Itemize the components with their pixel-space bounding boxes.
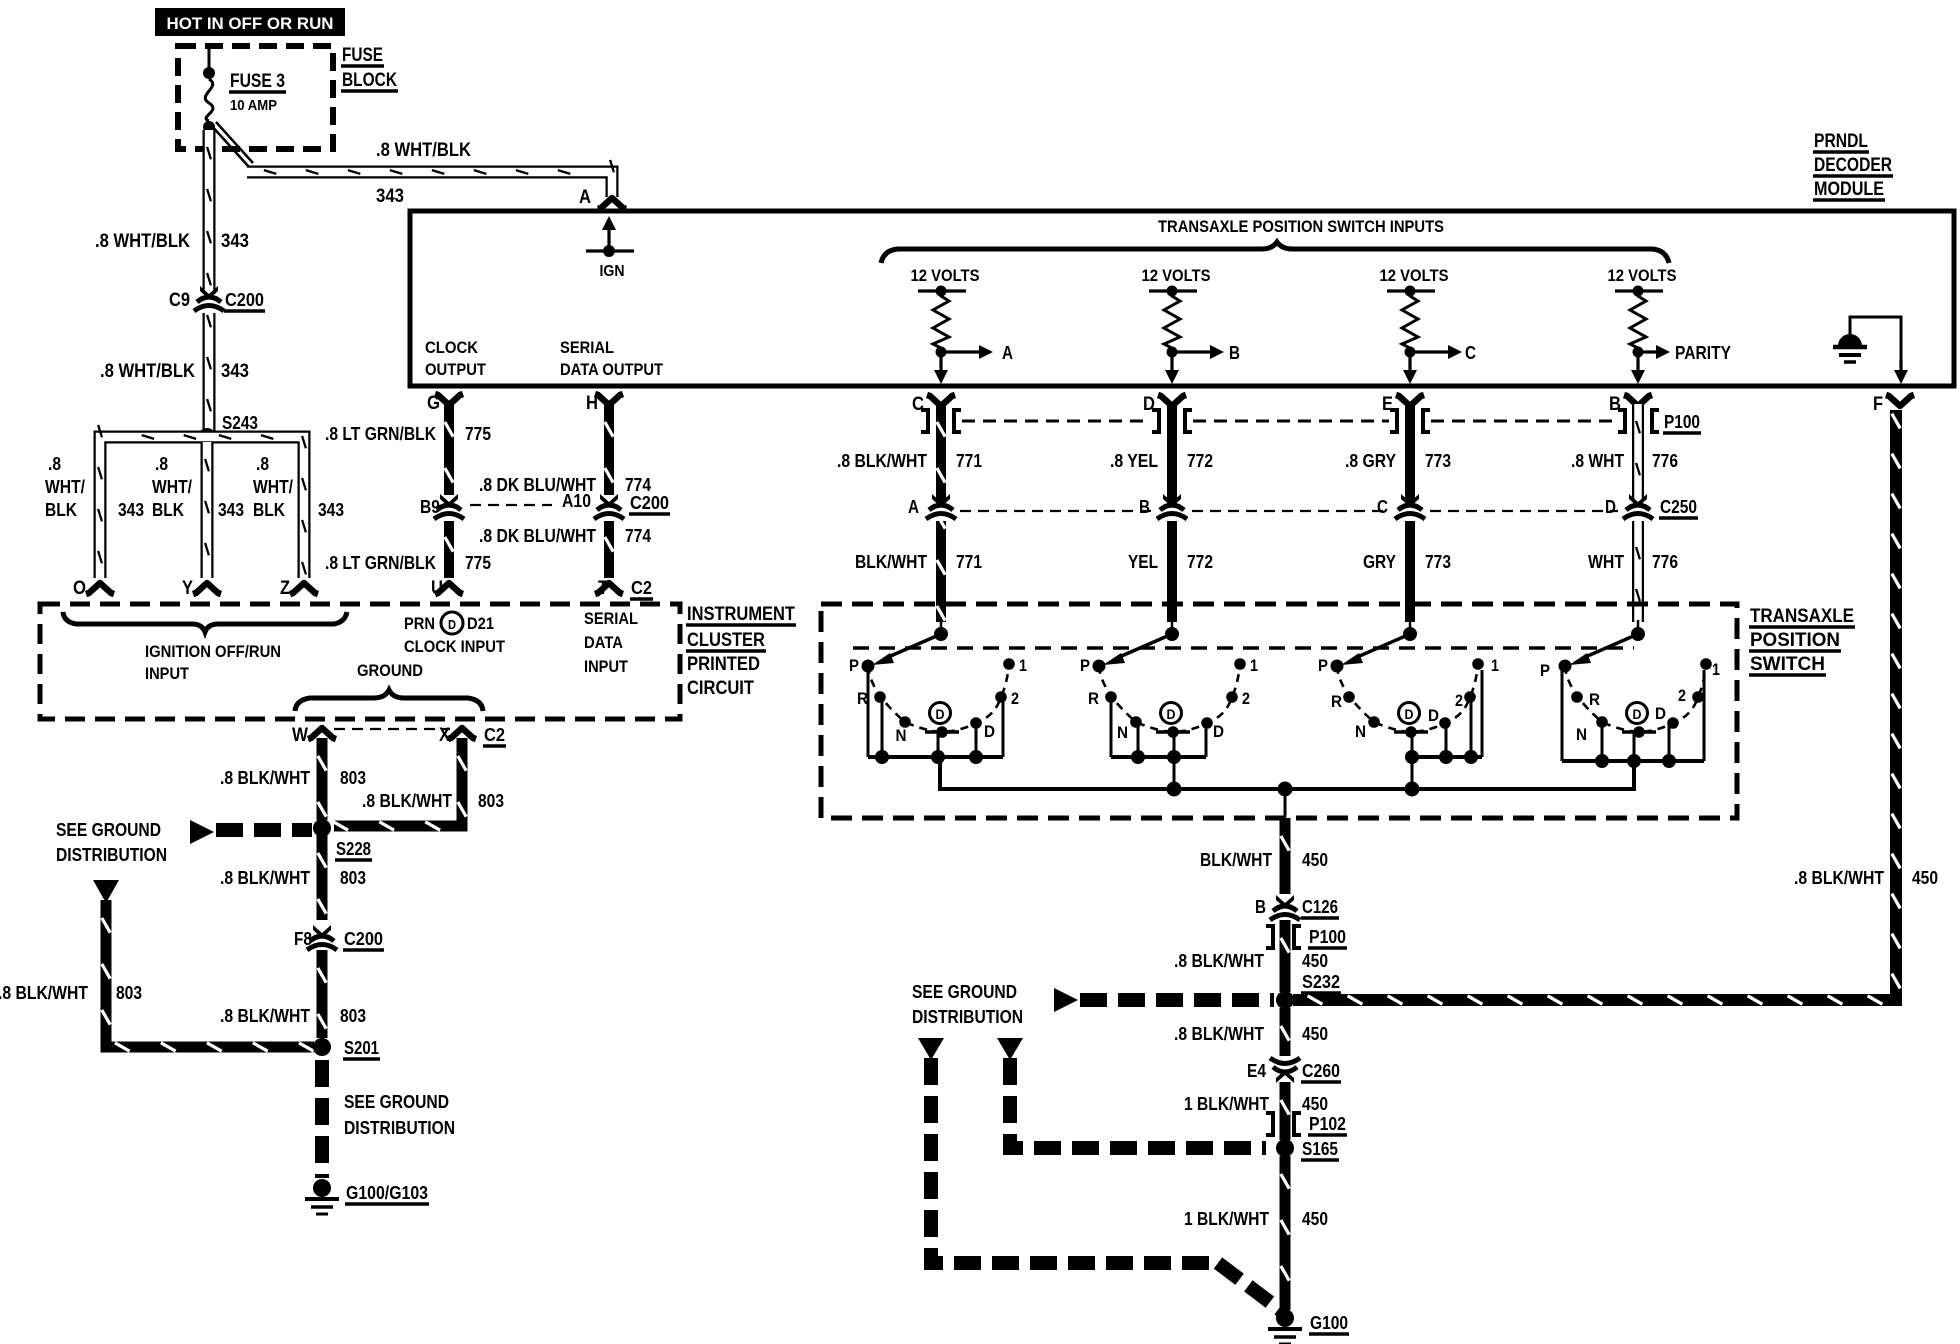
svg-text:10 AMP: 10 AMP [230,97,277,114]
fuse block label [341,45,398,91]
svg-text:MODULE: MODULE [1814,179,1884,200]
svg-text:.8 LT GRN/BLK: .8 LT GRN/BLK [325,553,436,573]
wire 1 BLK/WHT 450 C260 to S165 with P102 [1266,1082,1347,1140]
wire .8 GRY 773 terminal E to switch [1405,404,1415,622]
label .8 WHT/BLK 343 lower left vertical [100,361,249,382]
label .8 BLK/WHT 803 above S201 [220,1006,366,1026]
svg-text:P: P [1318,656,1328,675]
labels wire colors row above C250 [837,451,1678,471]
label .8 DK BLU/WHT 774 lower [479,526,651,546]
wire 1 BLK/WHT 450 S165 to G100 [1281,1156,1289,1310]
label 1 BLK/WHT 450 above G100 [1184,1209,1328,1229]
svg-text:776: 776 [1652,451,1678,471]
ground distribution arrow into S232 [1054,988,1274,1012]
wire 343 S243 branch to terminal O [98,425,213,578]
svg-text:R: R [1088,689,1099,708]
svg-text:DISTRIBUTION: DISTRIBUTION [344,1118,455,1138]
svg-text:TRANSAXLE POSITION SWITCH INPU: TRANSAXLE POSITION SWITCH INPUTS [1158,217,1444,236]
PRNDL decoder module label [1813,131,1893,200]
svg-text:B: B [1229,343,1240,363]
svg-text:C9: C9 [169,290,190,311]
wire .8 BLK/WHT 771 terminal C to switch [937,404,945,622]
svg-text:BLK: BLK [45,500,77,520]
svg-text:N: N [896,726,907,745]
svg-text:CLUSTER: CLUSTER [687,630,765,651]
svg-text:.8 WHT/BLK: .8 WHT/BLK [95,231,190,252]
module internal ground for parity return [1833,317,1908,384]
svg-text:450: 450 [1302,1024,1328,1044]
wire .8 YEL 772 terminal D to switch [1167,404,1177,622]
gear position switch wafer 1 [849,620,1027,789]
terminal A into module [579,187,626,209]
svg-text:A: A [908,497,919,517]
svg-text:DISTRIBUTION: DISTRIBUTION [56,845,167,865]
switch wiper linkage dashed line [853,646,1634,650]
svg-text:772: 772 [1187,451,1213,471]
svg-text:SEE GROUND: SEE GROUND [56,820,161,840]
wire .8 BLK/WHT 803 left branch to S201 [102,900,314,1051]
svg-text:D: D [1633,706,1642,722]
svg-text:2: 2 [1011,689,1019,708]
brace ignition off/run input [63,612,347,632]
svg-text:343: 343 [221,361,249,382]
svg-text:DATA OUTPUT: DATA OUTPUT [560,360,664,379]
svg-text:343: 343 [218,500,244,520]
svg-text:.8 BLK/WHT: .8 BLK/WHT [1174,1024,1264,1044]
svg-text:1: 1 [1019,656,1027,675]
wire .8 BLK/WHT 450 S232 to C260 [1281,1008,1289,1056]
ground distribution triangle left branch [93,880,119,903]
svg-text:1 BLK/WHT: 1 BLK/WHT [1184,1209,1269,1229]
label .8 BLK/WHT 450 below S232 [1174,1024,1328,1044]
terminal T serial data input with C2 [595,578,653,599]
svg-text:1 BLK/WHT: 1 BLK/WHT [1184,1094,1269,1114]
svg-text:P100: P100 [1664,412,1700,432]
label .8 DK BLU/WHT 774 upper [479,475,651,495]
svg-text:D: D [1605,497,1616,517]
svg-text:A: A [1002,343,1013,363]
svg-text:WHT/: WHT/ [253,477,293,497]
svg-text:.8 BLK/WHT: .8 BLK/WHT [362,791,452,811]
PRNDL decoder module box [410,211,1954,386]
label GROUND with brace [295,661,483,711]
svg-text:.8 BLK/WHT: .8 BLK/WHT [0,983,88,1003]
svg-text:S243: S243 [222,413,258,433]
svg-text:P102: P102 [1309,1114,1346,1134]
svg-text:S228: S228 [336,839,371,859]
label 1 BLK/WHT 450 above P102 [1184,1094,1328,1114]
wire .8 BLK/WHT 803 from X to S228 [333,738,466,830]
terminal G clock output [425,338,487,414]
svg-text:773: 773 [1425,451,1451,471]
splice S165 [1276,1139,1339,1160]
svg-text:D: D [984,722,995,741]
connector A10 C200 inline [470,491,670,521]
svg-text:C: C [1377,497,1388,517]
svg-text:WHT: WHT [1588,552,1624,572]
label .8 WHT/BLK 343 top run [376,140,471,207]
connector C126 terminal B [1255,895,1339,922]
svg-text:12 VOLTS: 12 VOLTS [1380,266,1449,285]
svg-text:803: 803 [340,768,366,788]
12 volt pull-up and output PARITY inside module [1608,266,1732,384]
svg-text:C2: C2 [484,725,505,745]
splice S243 [198,413,259,446]
connector C250 row [908,494,1698,521]
gear position switch wafer 2 [1080,620,1258,789]
svg-text:450: 450 [1302,1094,1328,1114]
splice S232 [1276,972,1341,1009]
ground distribution arrow into S228 [190,820,312,844]
label SEE GROUND DISTRIBUTION lower left [344,1092,455,1138]
svg-text:R: R [1589,690,1600,709]
wire .8 LT GRN/BLK 775 clock output [445,404,453,578]
svg-text:803: 803 [478,791,504,811]
svg-text:.8 BLK/WHT: .8 BLK/WHT [220,768,310,788]
svg-text:P: P [1080,656,1090,675]
terminals O Y Z into cluster [73,578,318,599]
svg-text:GRY: GRY [1363,552,1396,572]
svg-text:TRANSAXLE: TRANSAXLE [1750,606,1854,627]
svg-text:.8 BLK/WHT: .8 BLK/WHT [837,451,927,471]
svg-text:D21: D21 [467,614,494,633]
wire .8 BLK/WHT 803 S228 to C200 [318,835,326,920]
fuse block dashed box [178,46,333,149]
svg-text:771: 771 [956,451,982,471]
connector P100 row under module [921,410,1701,433]
label SERIAL DATA INPUT [584,609,638,676]
svg-text:450: 450 [1302,951,1328,971]
splice S201 [313,1038,380,1059]
12 volt pull-up and output B inside module [1142,266,1241,384]
svg-text:.8 BLK/WHT: .8 BLK/WHT [220,1006,310,1026]
labels .8 WHT/BLK 343 three drops [45,454,344,520]
wire .8 DK BLU/WHT 774 serial data [605,404,613,578]
label .8 BLK/WHT 803 W drop [220,768,366,788]
label TRANSAXLE POSITION SWITCH INPUTS [1158,217,1444,236]
svg-text:CLOCK: CLOCK [425,338,479,357]
svg-text:YEL: YEL [1128,552,1158,572]
svg-text:D: D [1213,722,1224,741]
svg-text:PRN: PRN [404,614,435,633]
ground G100 [1268,1309,1349,1344]
svg-text:.8: .8 [256,454,269,474]
svg-text:P100: P100 [1309,927,1346,947]
svg-text:343: 343 [376,186,404,207]
brace over switch input columns [881,242,1669,263]
wire BLK/WHT 450 switch to C126 [1281,818,1289,894]
svg-text:FUSE 3: FUSE 3 [230,71,285,92]
transaxle position switch dashed box [821,604,1737,818]
svg-text:.8 BLK/WHT: .8 BLK/WHT [220,868,310,888]
svg-text:C200: C200 [630,493,669,513]
svg-text:PRNDL: PRNDL [1814,131,1868,152]
svg-text:D: D [1167,706,1176,722]
ground distribution triangles center [918,1038,1023,1060]
label .8 LT GRN/BLK 775 lower [325,553,491,573]
svg-text:343: 343 [118,500,144,520]
svg-text:450: 450 [1302,1209,1328,1229]
svg-text:F: F [1873,394,1883,415]
svg-text:BLK/WHT: BLK/WHT [1200,850,1272,870]
svg-text:12 VOLTS: 12 VOLTS [1608,266,1677,285]
svg-text:P: P [849,656,859,675]
svg-text:R: R [857,689,868,708]
label IGNITION OFF/RUN INPUT [145,642,281,683]
svg-text:771: 771 [956,552,982,572]
gear position switch wafer 4 [1540,620,1720,789]
svg-text:.8 GRY: .8 GRY [1345,451,1396,471]
svg-text:Z: Z [280,578,290,599]
svg-text:WHT/: WHT/ [152,477,192,497]
svg-text:INPUT: INPUT [145,664,190,683]
wire .8 WHT/BLK 343 fuse to PRNDL module terminal A [210,122,614,197]
svg-text:S232: S232 [1302,972,1340,992]
svg-text:O: O [73,578,86,599]
ground path right triangle to S165 [1010,1058,1266,1148]
svg-text:E4: E4 [1247,1061,1266,1081]
svg-text:D: D [448,617,456,632]
svg-text:BLOCK: BLOCK [342,70,397,91]
terminal D under module [1143,394,1186,415]
svg-text:.8 WHT: .8 WHT [1571,451,1624,471]
svg-text:S165: S165 [1302,1139,1338,1159]
svg-text:C2: C2 [631,578,652,598]
svg-text:WHT/: WHT/ [45,477,85,497]
svg-text:DECODER: DECODER [1814,155,1892,176]
wire 343 S243 down to terminal Y [205,442,209,578]
svg-text:.8 LT GRN/BLK: .8 LT GRN/BLK [325,424,436,444]
label .8 BLK/WHT 803 left branch [0,983,142,1003]
connector F8 C200 inline [294,925,384,952]
svg-text:A: A [579,187,591,208]
ground path S201 to G100/G103 [315,1060,329,1178]
label SEE GROUND DISTRIBUTION center [912,982,1023,1027]
svg-text:S201: S201 [344,1038,379,1058]
svg-text:R: R [1331,692,1342,711]
svg-text:774: 774 [625,526,651,546]
svg-text:450: 450 [1302,850,1328,870]
svg-text:774: 774 [625,475,651,495]
svg-text:.8 YEL: .8 YEL [1110,451,1158,471]
svg-text:SWITCH: SWITCH [1750,654,1825,675]
wire .8 BLK/WHT 450 from terminal F [1293,410,1900,1004]
label .8 BLK/WHT 803 X drop [362,791,504,811]
svg-text:N: N [1355,722,1366,741]
svg-text:2: 2 [1678,686,1686,705]
svg-text:BLK: BLK [152,500,184,520]
svg-text:HOT IN OFF OR RUN: HOT IN OFF OR RUN [167,14,334,33]
svg-text:BLK: BLK [253,500,285,520]
svg-text:SEE GROUND: SEE GROUND [344,1092,449,1112]
svg-text:803: 803 [340,1006,366,1026]
svg-text:776: 776 [1652,552,1678,572]
wire 343 S243 branch to terminal Z [202,435,306,578]
svg-text:775: 775 [465,424,491,444]
wire .8 BLK/WHT 803 C200 to S201 [318,950,326,1038]
svg-text:G100/G103: G100/G103 [346,1183,428,1203]
switch output drop to BLK/WHT 450 [1284,789,1287,817]
label .8 LT GRN/BLK 775 upper [325,424,491,444]
transaxle position switch label [1749,606,1855,675]
wire .8 WHT/BLK 343 fuse to C200 and S243 [207,130,211,437]
svg-text:.8 BLK/WHT: .8 BLK/WHT [1174,951,1264,971]
wire and connector P100 lower [1266,920,1347,992]
svg-text:CLOCK INPUT: CLOCK INPUT [404,637,506,656]
svg-text:450: 450 [1912,868,1938,888]
label .8 WHT/BLK 343 upper left vertical [95,231,249,252]
ground path left triangle to G100 [931,1058,1283,1312]
svg-text:INPUT: INPUT [584,657,629,676]
svg-text:POSITION: POSITION [1750,630,1840,651]
svg-text:C126: C126 [1302,897,1338,917]
connector C9 C200 inline [169,286,265,313]
svg-text:P: P [1540,661,1550,680]
instrument cluster printed circuit dashed box [40,604,680,719]
svg-text:343: 343 [318,500,344,520]
wire .8 WHT 776 terminal B to switch [1636,404,1640,622]
svg-text:B: B [1139,497,1150,517]
terminal U clock input [431,578,463,599]
svg-text:FUSE: FUSE [342,45,383,66]
svg-text:SERIAL: SERIAL [584,609,638,628]
ground G100/G103 [305,1179,429,1214]
terminal E under module [1382,394,1424,415]
svg-text:N: N [1117,723,1128,742]
fuse FUSE 3 10 AMP [203,46,286,133]
IGN node inside module [586,216,634,280]
svg-text:INSTRUMENT: INSTRUMENT [687,604,795,625]
connector C260 terminal E4 [1247,1056,1341,1083]
svg-text:1: 1 [1712,660,1720,679]
terminals W X ground outputs with C2 [292,725,506,746]
svg-text:IGNITION OFF/RUN: IGNITION OFF/RUN [145,642,281,661]
svg-text:D: D [1428,706,1439,725]
label .8 BLK/WHT 450 F branch [1794,868,1938,888]
label SEE GROUND DISTRIBUTION upper left [56,820,167,865]
svg-text:B9: B9 [420,497,440,517]
svg-text:F8: F8 [294,929,312,949]
svg-text:.8 BLK/WHT: .8 BLK/WHT [1794,868,1884,888]
instrument cluster label [686,604,796,699]
wire .8 BLK/WHT 803 from W to S228 [318,738,326,820]
svg-text:12 VOLTS: 12 VOLTS [911,266,980,285]
svg-text:803: 803 [340,868,366,888]
labels wire colors row below C250 [855,552,1678,572]
power source label HOT IN OFF OR RUN [155,8,345,36]
svg-text:343: 343 [221,231,249,252]
label PRN D D21 CLOCK INPUT [404,612,506,656]
svg-text:C: C [1465,343,1476,363]
terminal H serial data output [560,338,664,414]
svg-text:DATA: DATA [584,633,623,652]
svg-text:D: D [1655,704,1666,723]
svg-text:772: 772 [1187,552,1213,572]
terminal C under module [912,394,955,415]
svg-text:IGN: IGN [600,263,625,280]
svg-text:A10: A10 [562,491,591,511]
svg-text:C200: C200 [225,290,264,310]
terminal F under module [1873,394,1914,415]
splice S228 [313,819,372,860]
svg-text:BLK/WHT: BLK/WHT [855,552,927,572]
svg-text:.8: .8 [155,454,168,474]
terminal B under module [1609,394,1652,415]
svg-text:D: D [1405,706,1414,722]
svg-text:2: 2 [1455,691,1463,710]
svg-text:G100: G100 [1310,1313,1348,1333]
svg-text:773: 773 [1425,552,1451,572]
12 volt pull-up and output C inside module [1380,266,1477,384]
svg-text:.8 WHT/BLK: .8 WHT/BLK [100,361,195,382]
svg-text:.8 WHT/BLK: .8 WHT/BLK [376,140,471,161]
svg-text:CIRCUIT: CIRCUIT [687,678,754,699]
svg-text:N: N [1576,725,1587,744]
svg-text:GROUND: GROUND [357,661,423,680]
svg-text:SEE GROUND: SEE GROUND [912,982,1017,1002]
svg-text:.8 DK BLU/WHT: .8 DK BLU/WHT [479,526,596,546]
svg-text:.8: .8 [48,454,61,474]
svg-text:D: D [936,706,945,722]
label BLK/WHT 450 [1200,850,1328,870]
svg-text:1: 1 [1491,656,1499,675]
svg-text:1: 1 [1250,656,1258,675]
svg-text:DISTRIBUTION: DISTRIBUTION [912,1007,1023,1027]
svg-text:OUTPUT: OUTPUT [425,360,487,379]
svg-text:PRINTED: PRINTED [687,654,760,675]
switch common bus [940,757,1634,797]
svg-text:C200: C200 [344,929,383,949]
12 volt pull-up and output A inside module [911,266,1014,384]
svg-text:775: 775 [465,553,491,573]
svg-text:C250: C250 [1660,497,1697,517]
label .8 BLK/WHT 803 above F8 [220,868,366,888]
connector B9 C200 inline [420,494,464,521]
svg-text:PARITY: PARITY [1675,343,1731,363]
gear position switch wafer 3 [1318,620,1499,789]
svg-text:SERIAL: SERIAL [560,338,614,357]
svg-text:2: 2 [1242,689,1250,708]
svg-text:Y: Y [182,578,193,599]
svg-text:803: 803 [116,983,142,1003]
svg-text:W: W [292,725,308,746]
label .8 BLK/WHT 450 above S232 [1174,951,1328,971]
svg-text:12 VOLTS: 12 VOLTS [1142,266,1211,285]
svg-text:B: B [1255,897,1266,917]
svg-text:C260: C260 [1302,1061,1340,1081]
